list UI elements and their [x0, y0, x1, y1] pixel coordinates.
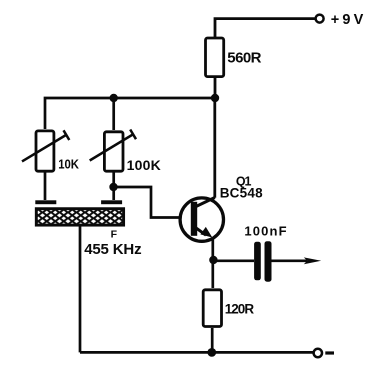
transistor emitter arrowhead	[200, 227, 212, 238]
capacitor C 100nF (left plate)	[254, 242, 261, 281]
label: minus sign	[325, 351, 334, 354]
wire: 10K bottom lead to filter terminal	[44, 171, 47, 200]
junction above 100K	[110, 94, 118, 102]
trimmer 100K adjust arrow	[90, 134, 134, 161]
ceramic filter F 455KHz (crosshatched body)	[36, 209, 123, 225]
svg-text:100nF: 100nF	[244, 223, 286, 238]
svg-text:100K: 100K	[127, 157, 161, 173]
wire: 120R top lead to emitter junction	[211, 260, 214, 288]
svg-text:455 KHz: 455 KHz	[84, 241, 141, 258]
filter right terminal bar	[101, 200, 122, 204]
wire: +9V rail from 560R top to supply terminal	[215, 19, 315, 38]
wire: emitter node to capacitor	[213, 259, 254, 262]
wire: negative rail	[80, 351, 314, 354]
resistor R 120R	[203, 290, 221, 327]
wire: base tap to transistor base	[114, 187, 191, 218]
junction on 100K bottom lead (base tap)	[109, 183, 117, 191]
output arrowhead	[304, 257, 321, 264]
transistor base bar	[191, 202, 197, 236]
trimmer 10K adjust arrow	[22, 135, 66, 161]
trimmer resistor 100K body	[104, 132, 123, 171]
wire: horizontal bus to trimmers	[45, 98, 215, 129]
svg-text:120R: 120R	[225, 302, 255, 317]
svg-text:560R: 560R	[227, 49, 261, 66]
transistor collector stroke	[196, 198, 215, 207]
wire: collector lead from +9V junction down to transistor	[213, 98, 216, 198]
node: negative terminal (open circle)	[314, 349, 322, 357]
wire: 100K top lead	[112, 98, 115, 130]
filter left terminal bar	[35, 200, 56, 204]
transistor Q1 BC548 (NPN)	[180, 198, 223, 241]
wire: 560R bottom to junction	[214, 78, 217, 98]
transistor emitter stroke	[194, 227, 206, 236]
junction: emitter node	[209, 256, 217, 264]
svg-text:BC548: BC548	[220, 185, 263, 200]
svg-text:10K: 10K	[58, 158, 79, 172]
svg-text:F: F	[111, 228, 118, 240]
wire: 100K bottom lead to filter terminal	[112, 171, 115, 200]
wire: output lead	[272, 259, 308, 262]
svg-text:+ 9 V: + 9 V	[331, 12, 364, 28]
wire: 120R bottom lead	[211, 328, 214, 352]
junction: 120R bottom on negative rail	[207, 348, 216, 357]
wire: emitter lead down to junction	[211, 238, 214, 260]
capacitor C 100nF (right plate)	[265, 241, 272, 282]
node: +9V supply terminal (open circle)	[316, 15, 324, 23]
junction at 560R bottom / top rail of trimmers	[211, 94, 219, 102]
trimmer resistor 10K body	[36, 131, 54, 171]
wire: filter common lead down to negative rail	[79, 226, 82, 352]
resistor R 560R	[206, 38, 224, 77]
